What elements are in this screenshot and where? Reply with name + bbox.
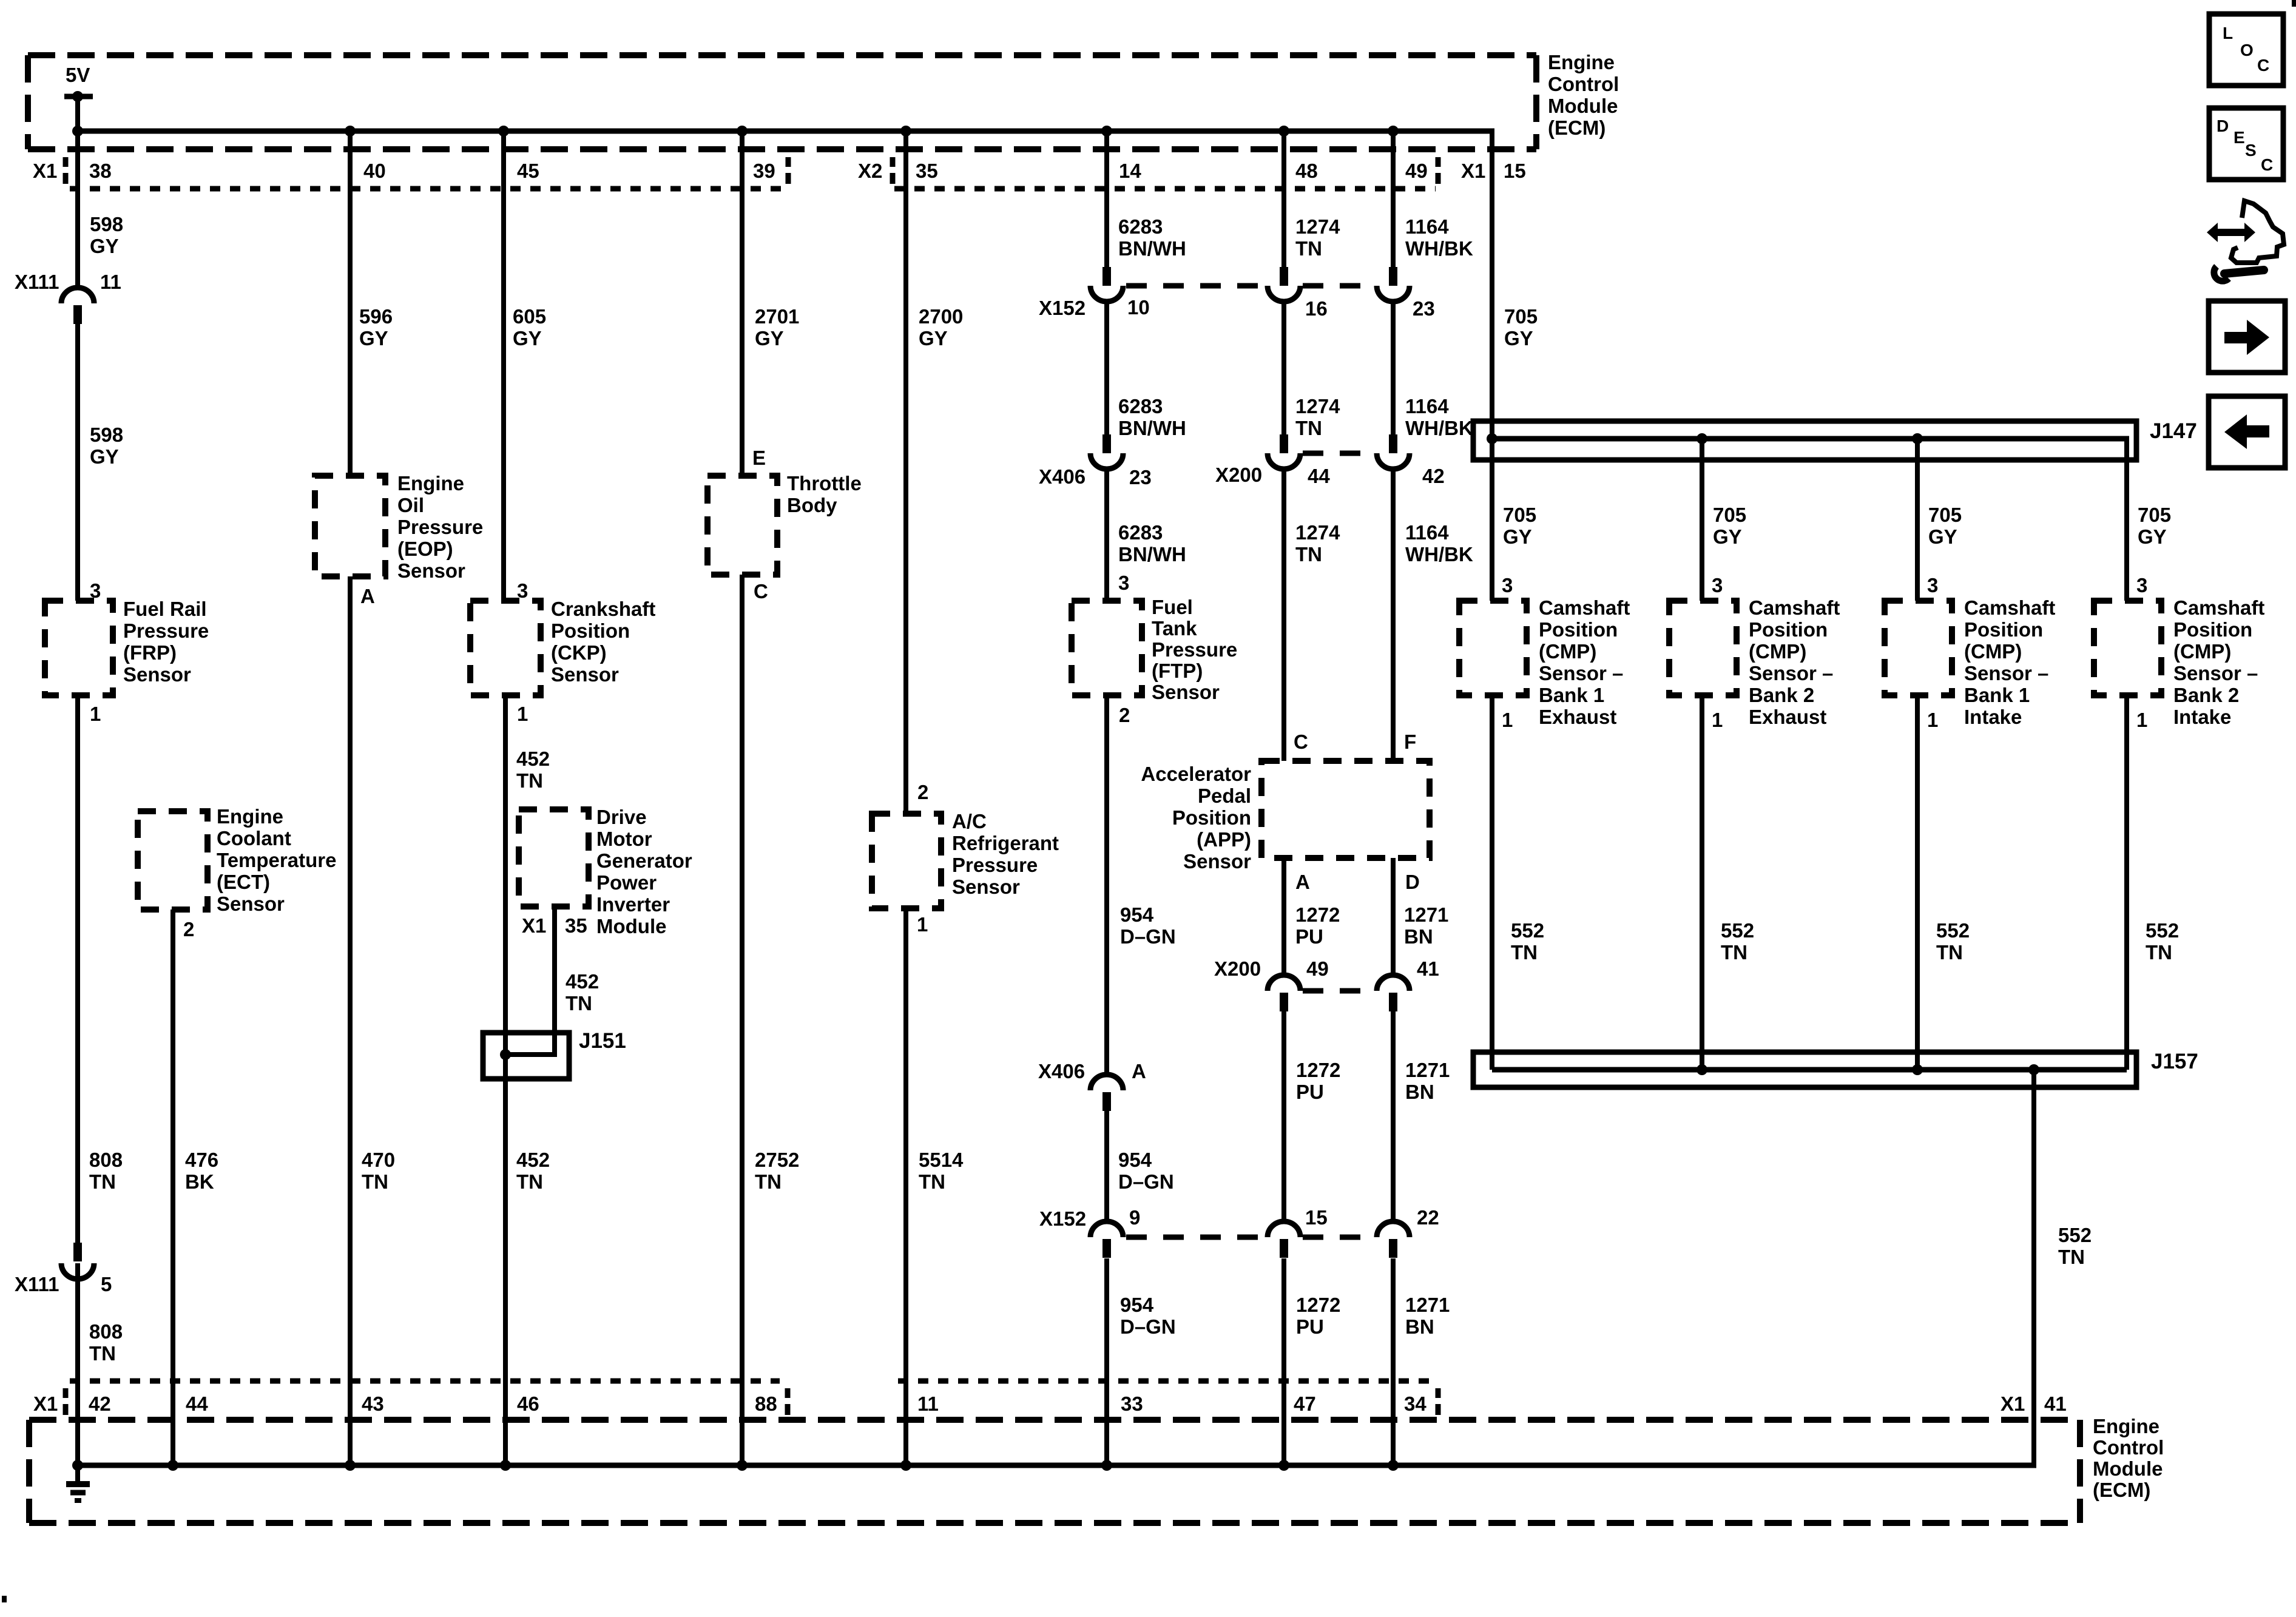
svg-text:Module: Module [596, 915, 666, 937]
Crankshaft Position (CKP) Sensor box [470, 601, 541, 695]
svg-text:TN: TN [1936, 941, 1963, 964]
svg-text:Position: Position [1539, 618, 1618, 641]
wire 1271 BN (X152-22 to ECM 34) [1391, 1258, 1396, 1465]
svg-text:Bank 2: Bank 2 [1749, 684, 1814, 706]
svg-text:1271: 1271 [1404, 903, 1448, 926]
svg-text:598: 598 [90, 213, 123, 235]
svg-text:44: 44 [1308, 465, 1330, 487]
svg-text:452: 452 [516, 1149, 550, 1171]
svg-text:Bank 2: Bank 2 [2173, 684, 2239, 706]
wire 1164 WH/BK (X152-23 to X200-42) [1391, 302, 1396, 438]
wire 1274 TN (X200-44 to APP C) [1281, 469, 1286, 761]
svg-text:1: 1 [517, 703, 528, 725]
svg-text:(CMP): (CMP) [1749, 640, 1806, 663]
svg-text:33: 33 [1121, 1393, 1143, 1415]
svg-text:E: E [752, 447, 766, 469]
svg-text:1274: 1274 [1295, 395, 1340, 417]
svg-text:(CMP): (CMP) [1539, 640, 1596, 663]
wire 2701 GY (ECM 39 to Throttle Body E) [740, 131, 745, 476]
svg-text:Fuel: Fuel [1152, 596, 1193, 618]
svg-text:Throttle: Throttle [787, 472, 862, 495]
wire 476 BK (ECT 2 to ECM 44) [171, 910, 175, 1465]
svg-text:44: 44 [186, 1393, 208, 1415]
svg-text:Camshaft: Camshaft [2173, 596, 2264, 619]
svg-text:TN: TN [362, 1170, 388, 1193]
svg-text:Refrigerant: Refrigerant [952, 832, 1059, 854]
svg-text:Module: Module [2093, 1457, 2163, 1480]
junction [737, 1460, 748, 1471]
separator after X2 [890, 157, 896, 167]
junction [1278, 1460, 1289, 1471]
Camshaft Position (CMP) Sensor box 3 [1885, 601, 1952, 695]
X200 dashed link (lower) [1303, 988, 1374, 994]
svg-text:BN/WH: BN/WH [1118, 543, 1186, 565]
svg-text:X1: X1 [1461, 160, 1485, 182]
svg-text:6283: 6283 [1118, 395, 1163, 417]
svg-text:Pressure: Pressure [123, 619, 209, 642]
svg-text:Position: Position [1964, 618, 2043, 641]
splice J151 [483, 1033, 569, 1079]
wire 1164 WH/BK (ECM 49 to X152-23) [1391, 131, 1396, 270]
ground bus inside ECM [78, 1463, 2036, 1468]
svg-text:598: 598 [90, 424, 123, 446]
junction [1388, 1460, 1399, 1471]
svg-text:Drive: Drive [596, 806, 647, 828]
svg-text:Oil: Oil [397, 494, 424, 516]
junction [1101, 1460, 1112, 1471]
svg-text:6283: 6283 [1118, 215, 1163, 238]
svg-text:Fuel Rail: Fuel Rail [123, 598, 207, 620]
svg-text:35: 35 [916, 160, 938, 182]
svg-text:Power: Power [596, 871, 657, 894]
connector X152 pin 9 [1102, 1239, 1111, 1258]
connector X111 pin 5 [73, 1243, 82, 1261]
svg-text:D–GN: D–GN [1120, 925, 1176, 948]
svg-text:TN: TN [1295, 417, 1322, 439]
svg-text:596: 596 [359, 305, 393, 328]
Fuel Rail Pressure (FRP) Sensor box [45, 601, 113, 695]
svg-text:X406: X406 [1039, 465, 1086, 488]
svg-text:15: 15 [1504, 160, 1526, 182]
svg-text:14: 14 [1119, 160, 1141, 182]
svg-text:Sensor: Sensor [1183, 850, 1251, 873]
svg-text:1272: 1272 [1296, 1059, 1340, 1081]
svg-text:(CMP): (CMP) [2173, 640, 2231, 663]
svg-text:552: 552 [1936, 919, 1970, 942]
svg-text:Position: Position [551, 619, 630, 642]
svg-text:TN: TN [919, 1170, 945, 1193]
svg-text:Bank 1: Bank 1 [1964, 684, 2030, 706]
svg-text:X1: X1 [33, 160, 57, 182]
connector X200 pin 41 [1389, 993, 1397, 1011]
svg-text:1274: 1274 [1295, 521, 1340, 544]
wire 552 TN (CMP4 pin 1 to J157) [2124, 695, 2129, 1070]
svg-text:1271: 1271 [1405, 1294, 1450, 1316]
svg-text:552: 552 [2058, 1224, 2092, 1246]
page corner marks [2292, 0, 2296, 7]
svg-text:Sensor –: Sensor – [1964, 662, 2048, 684]
svg-text:808: 808 [89, 1320, 123, 1343]
svg-text:Sensor: Sensor [217, 893, 285, 915]
svg-text:Coolant: Coolant [217, 827, 291, 849]
junction [1278, 126, 1289, 137]
svg-text:(CMP): (CMP) [1964, 640, 2022, 663]
wire 2752 TN (Throttle C to ECM 88) [740, 575, 745, 1465]
svg-text:Engine: Engine [2093, 1415, 2159, 1437]
connector row X1 (bottom) dotted line [70, 1379, 780, 1384]
svg-text:Pedal: Pedal [1198, 785, 1251, 807]
svg-text:1164: 1164 [1405, 215, 1449, 238]
junction [1101, 126, 1112, 137]
connector X111 pin 11 [73, 305, 82, 324]
svg-text:GY: GY [1504, 327, 1533, 349]
svg-text:3: 3 [1712, 574, 1723, 596]
svg-text:BK: BK [185, 1170, 214, 1193]
svg-text:40: 40 [363, 160, 386, 182]
svg-text:Bank 1: Bank 1 [1539, 684, 1604, 706]
svg-text:S: S [2245, 141, 2257, 160]
svg-text:39: 39 [753, 160, 775, 182]
svg-text:A: A [1132, 1060, 1146, 1082]
svg-text:35: 35 [565, 914, 587, 937]
X1 separator [63, 157, 69, 167]
svg-text:Accelerator: Accelerator [1141, 763, 1251, 785]
svg-text:22: 22 [1417, 1206, 1439, 1229]
svg-text:Position: Position [1749, 618, 1828, 641]
separator after 49 [1436, 157, 1441, 167]
svg-text:D: D [1405, 871, 1420, 893]
svg-text:C: C [1294, 731, 1308, 753]
svg-text:705: 705 [1503, 504, 1536, 526]
separator after 39 [786, 157, 791, 167]
icon box arrow right [2209, 301, 2285, 373]
svg-text:J147: J147 [2150, 419, 2197, 443]
svg-text:Sensor –: Sensor – [1749, 662, 1833, 684]
svg-text:WH/BK: WH/BK [1405, 543, 1473, 565]
svg-text:5V: 5V [66, 64, 90, 86]
wire 6283 BN/WH (ECM 14 to X152-10) [1104, 131, 1109, 270]
svg-text:2701: 2701 [755, 305, 799, 328]
svg-text:GY: GY [1503, 525, 1532, 548]
svg-text:BN: BN [1405, 1081, 1434, 1103]
wire 954 D-GN (FTP 2 to X406-A) [1104, 695, 1109, 1075]
svg-text:45: 45 [517, 160, 539, 182]
Engine Oil Pressure (EOP) Sensor box [315, 476, 385, 576]
svg-text:Engine: Engine [1548, 51, 1615, 73]
junction [498, 126, 509, 137]
svg-text:Camshaft: Camshaft [1539, 596, 1630, 619]
svg-text:6283: 6283 [1118, 521, 1163, 544]
svg-text:47: 47 [1294, 1393, 1316, 1415]
Camshaft Position (CMP) Sensor box 2 [1669, 601, 1737, 695]
Accelerator Pedal Position (APP) Sensor box [1261, 761, 1430, 858]
connector X200 pin 42 [1389, 434, 1397, 453]
svg-text:D–GN: D–GN [1118, 1170, 1174, 1193]
wire 552 TN (CMP2 pin 1 to J157) [1700, 695, 1704, 1070]
svg-text:PU: PU [1296, 1081, 1324, 1103]
wire 1271 BN (X200-41 to X152-22) [1391, 1011, 1396, 1221]
svg-text:BN/WH: BN/WH [1118, 237, 1186, 260]
svg-text:O: O [2240, 41, 2254, 59]
wire 1164 WH/BK (X200-42 to APP F) [1391, 469, 1396, 761]
svg-text:(FTP): (FTP) [1152, 660, 1203, 682]
svg-text:TN: TN [2058, 1246, 2085, 1268]
wire 552 TN (CMP1 pin 1 to J157) [1490, 695, 1494, 1070]
svg-text:TN: TN [2146, 941, 2172, 964]
svg-text:452: 452 [516, 748, 550, 770]
svg-text:1271: 1271 [1405, 1059, 1450, 1081]
svg-text:16: 16 [1305, 297, 1328, 320]
svg-text:A: A [360, 585, 375, 607]
separator after 88 [785, 1388, 791, 1398]
svg-text:954: 954 [1120, 1294, 1154, 1316]
wire 705 GY (J147 to CMP1 pin 3) [1490, 439, 1494, 601]
svg-text:GY: GY [1928, 525, 1957, 548]
svg-text:BN: BN [1404, 925, 1433, 948]
junction [900, 126, 911, 137]
svg-text:GY: GY [2138, 525, 2167, 548]
wire 808 TN (FRP 1 to X111-5) [75, 695, 80, 1244]
Throttle Body box [707, 476, 777, 575]
svg-text:2700: 2700 [919, 305, 963, 328]
svg-text:GY: GY [919, 327, 948, 349]
svg-text:TN: TN [89, 1170, 116, 1193]
svg-text:GY: GY [359, 327, 388, 349]
svg-text:(EOP): (EOP) [397, 538, 453, 560]
svg-text:452: 452 [566, 970, 599, 993]
svg-text:1: 1 [917, 913, 928, 936]
Drive Motor Generator Power Inverter Module box [519, 809, 589, 906]
wire 705 GY (J147 to CMP2 pin 3) [1700, 439, 1704, 601]
svg-text:1: 1 [1712, 709, 1723, 731]
Fuel Tank Pressure (FTP) Sensor box [1072, 601, 1142, 695]
svg-text:X1: X1 [2001, 1393, 2025, 1415]
svg-text:11: 11 [917, 1393, 939, 1415]
svg-text:Sensor –: Sensor – [2173, 662, 2258, 684]
svg-text:9: 9 [1129, 1206, 1140, 1229]
svg-text:552: 552 [1511, 919, 1544, 942]
svg-text:X152: X152 [1039, 297, 1086, 319]
svg-text:3: 3 [1502, 574, 1513, 596]
svg-text:41: 41 [1417, 957, 1439, 980]
junction [167, 1460, 178, 1471]
svg-text:23: 23 [1413, 297, 1435, 320]
svg-text:34: 34 [1404, 1393, 1427, 1415]
svg-text:Sensor: Sensor [397, 559, 465, 582]
svg-text:(ECM): (ECM) [1548, 116, 1606, 139]
X152 dashed link (lower) [1126, 1235, 1265, 1240]
junction [345, 126, 356, 137]
svg-text:954: 954 [1120, 903, 1154, 926]
junction [1388, 126, 1399, 137]
svg-text:1272: 1272 [1296, 1294, 1340, 1316]
svg-text:J157: J157 [2151, 1050, 2198, 1073]
icon box DESC [2209, 108, 2283, 180]
svg-text:Intake: Intake [2173, 706, 2231, 728]
svg-text:5: 5 [101, 1273, 112, 1295]
svg-text:BN/WH: BN/WH [1118, 417, 1186, 439]
svg-text:Inverter: Inverter [596, 893, 670, 916]
svg-text:TN: TN [566, 992, 592, 1014]
wire 1274 TN (X152-16 to X200-44) [1281, 302, 1286, 438]
connector X152 pin 15 [1280, 1239, 1288, 1258]
svg-text:L: L [2223, 24, 2233, 42]
svg-text:C: C [754, 580, 768, 603]
svg-text:48: 48 [1295, 160, 1318, 182]
svg-text:705: 705 [1504, 305, 1538, 328]
svg-text:X1: X1 [33, 1393, 58, 1415]
svg-text:1164: 1164 [1405, 521, 1449, 544]
svg-text:A: A [1295, 871, 1310, 893]
svg-text:A/C: A/C [952, 810, 987, 832]
X200 dashed link [1303, 451, 1374, 456]
icon: adjust/repair (double arrow) [2207, 223, 2255, 242]
svg-text:Pressure: Pressure [952, 854, 1038, 876]
svg-text:49: 49 [1306, 957, 1329, 980]
svg-text:705: 705 [2138, 504, 2171, 526]
wire 596 GY (ECM 40 to EOP) [348, 131, 353, 476]
svg-text:2: 2 [917, 781, 928, 803]
wire 470 TN (EOP A to ECM 43) [348, 576, 353, 1465]
ECM module box (top) [28, 52, 1536, 58]
svg-text:TN: TN [1721, 941, 1747, 964]
svg-text:X200: X200 [1214, 957, 1261, 980]
svg-text:(APP): (APP) [1197, 828, 1251, 851]
svg-text:X111: X111 [15, 271, 59, 293]
svg-text:Body: Body [787, 494, 837, 516]
svg-text:(FRP): (FRP) [123, 641, 177, 664]
ground symbol [75, 1465, 80, 1481]
wire 552 TN (CMP3 pin 1 to J157) [1915, 695, 1920, 1070]
svg-text:49: 49 [1405, 160, 1428, 182]
Camshaft Position (CMP) Sensor box 1 [1459, 601, 1527, 695]
svg-text:23: 23 [1129, 466, 1152, 488]
X152 dashed link [1126, 283, 1265, 289]
wire 705 GY (J147 to CMP3 pin 3) [1915, 439, 1920, 601]
svg-text:2752: 2752 [755, 1149, 799, 1171]
svg-text:Position: Position [1172, 806, 1251, 829]
svg-text:TN: TN [89, 1342, 116, 1365]
junction [500, 1460, 511, 1471]
svg-text:BN: BN [1405, 1315, 1434, 1338]
svg-text:Control: Control [2093, 1436, 2164, 1459]
svg-text:15: 15 [1305, 1206, 1328, 1229]
connector X200 pin 49 [1280, 993, 1288, 1011]
svg-text:Exhaust: Exhaust [1539, 706, 1616, 728]
icon box LOC [2209, 14, 2283, 86]
svg-text:TN: TN [1295, 543, 1322, 565]
svg-text:X1: X1 [522, 914, 546, 937]
svg-text:Sensor: Sensor [952, 876, 1020, 898]
connector X406 pin A [1102, 1092, 1111, 1111]
svg-text:GY: GY [90, 235, 119, 257]
svg-text:Intake: Intake [1964, 706, 2022, 728]
svg-text:705: 705 [1928, 504, 1962, 526]
svg-text:Sensor –: Sensor – [1539, 662, 1623, 684]
svg-text:E: E [2234, 128, 2245, 147]
svg-text:TN: TN [1295, 237, 1322, 260]
wire 808 TN (X111-5 to ECM 42) [75, 1263, 80, 1465]
svg-text:552: 552 [1721, 919, 1754, 942]
splice bar J147 [1473, 421, 2136, 460]
svg-text:GY: GY [90, 445, 119, 468]
svg-text:PU: PU [1296, 1315, 1324, 1338]
svg-text:1272: 1272 [1295, 903, 1340, 926]
svg-text:11: 11 [100, 271, 121, 293]
wire 1271 BN (APP D to X200-41) [1391, 858, 1396, 975]
splice bar J157 [1473, 1052, 2136, 1087]
icon: wrench [2214, 266, 2229, 281]
svg-text:476: 476 [185, 1149, 218, 1171]
svg-text:J151: J151 [579, 1029, 626, 1053]
connector X406 pin 23 [1102, 434, 1111, 453]
svg-text:470: 470 [362, 1149, 395, 1171]
svg-text:TN: TN [516, 1170, 543, 1193]
svg-text:Sensor: Sensor [123, 663, 191, 686]
svg-text:Control: Control [1548, 73, 1619, 95]
svg-text:WH/BK: WH/BK [1405, 417, 1473, 439]
wire 954 D-GN (X406-A to X152-9) [1104, 1110, 1109, 1221]
svg-text:X200: X200 [1215, 464, 1262, 486]
junction [72, 1460, 83, 1471]
wire 6283 BN/WH (X152-10 to X406-23) [1104, 302, 1109, 438]
separator after 34 [1436, 1388, 1441, 1398]
svg-text:46: 46 [517, 1393, 539, 1415]
svg-text:Tank: Tank [1152, 617, 1197, 640]
junction [345, 1460, 356, 1471]
svg-text:X111: X111 [15, 1273, 59, 1295]
svg-text:Camshaft: Camshaft [1749, 596, 1840, 619]
Engine Coolant Temperature (ECT) Sensor box [138, 811, 208, 910]
svg-text:X2: X2 [858, 160, 882, 182]
wire 5514 TN (A/C 1 to ECM 11) [903, 908, 908, 1465]
svg-text:Motor: Motor [596, 828, 652, 850]
svg-text:D: D [2217, 116, 2229, 135]
connector X200 pin 44 [1280, 434, 1288, 453]
svg-text:43: 43 [362, 1393, 384, 1415]
wire 1274 TN (ECM 48 to X152-16) [1281, 131, 1286, 270]
svg-text:Pressure: Pressure [397, 516, 483, 538]
svg-text:Exhaust: Exhaust [1749, 706, 1826, 728]
ECM module box (bottom) [29, 1417, 2080, 1423]
svg-text:Engine: Engine [217, 805, 283, 828]
svg-text:Sensor: Sensor [551, 663, 619, 686]
wire 6283 BN/WH (X406-23 to FTP 3) [1104, 469, 1109, 601]
Camshaft Position (CMP) Sensor box 4 [2094, 601, 2161, 695]
svg-text:X406: X406 [1038, 1060, 1085, 1082]
svg-text:C: C [2257, 56, 2269, 75]
svg-text:WH/BK: WH/BK [1405, 237, 1473, 260]
wire 598 GY (ECM 38 to X111-11) [75, 131, 80, 289]
wire 2700 GY (ECM X2-35 to A/C 2) [903, 131, 908, 814]
svg-text:605: 605 [513, 305, 546, 328]
svg-text:TN: TN [516, 769, 543, 792]
svg-text:1: 1 [1502, 709, 1513, 731]
wire 1272 PU (APP A to X200-49) [1281, 858, 1286, 975]
svg-text:2: 2 [1119, 704, 1130, 726]
svg-text:3: 3 [2136, 574, 2147, 596]
svg-text:5514: 5514 [919, 1149, 964, 1171]
icon: body panel outline [2231, 201, 2284, 263]
svg-text:42: 42 [89, 1393, 111, 1415]
connector X152 pin 16 [1280, 267, 1288, 286]
junction [72, 126, 83, 137]
wire 452 TN (CKP 1 to J151) [503, 695, 508, 1465]
connector X152 pin 23 [1389, 267, 1397, 286]
wire 954 D-GN (X152-9 to ECM 33) [1104, 1258, 1109, 1465]
svg-text:Crankshaft: Crankshaft [551, 598, 655, 620]
wire 552 TN (J157 to ECM X1-41) [2031, 1070, 2036, 1465]
